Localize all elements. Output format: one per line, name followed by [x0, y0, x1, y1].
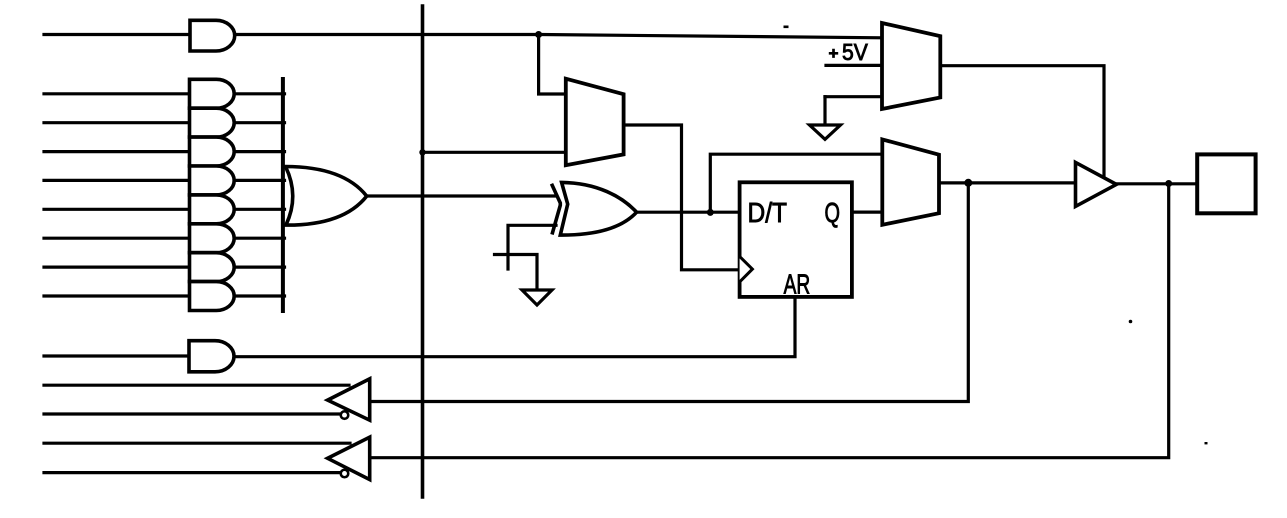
svg-text:D/T: D/T	[748, 197, 788, 228]
svg-text:Q: Q	[825, 197, 841, 228]
svg-text:5V: 5V	[842, 39, 868, 65]
svg-text:AR: AR	[784, 269, 811, 300]
